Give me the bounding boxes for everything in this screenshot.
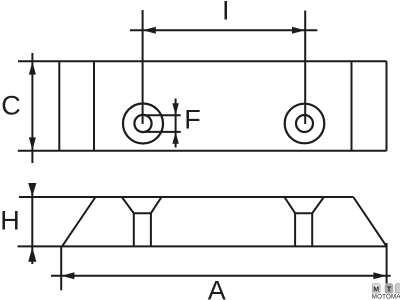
- dimension F lower extension line: [144, 131, 181, 133]
- dimension C line: [31, 53, 33, 163]
- plan view top edge with C extension: [18, 60, 387, 62]
- dimension F top arrowhead: [172, 103, 178, 115]
- countersink 2 bore right wall: [311, 213, 313, 246]
- hole 1 inner circle: [134, 115, 151, 132]
- dimension A left extension line: [60, 247, 62, 291]
- svg-text:H: H: [0, 205, 20, 235]
- svg-text:I: I: [222, 0, 230, 26]
- side view right taper edge: [353, 197, 386, 246]
- svg-text:A: A: [208, 275, 226, 300]
- side view left taper edge: [62, 197, 96, 246]
- svg-text:MOTOMAR: MOTOMAR: [372, 293, 400, 300]
- hole 2 outer circle: [285, 104, 325, 144]
- dimension I line: [130, 29, 317, 31]
- plan view left edge: [58, 61, 60, 151]
- dimension H top arrowhead: [28, 183, 36, 196]
- hole 1 outer circle: [123, 104, 163, 144]
- countersink 2 bore left wall: [294, 213, 296, 246]
- plan view bottom edge with C extension: [18, 150, 387, 152]
- dimension A right arrowhead: [373, 272, 386, 279]
- hole 1 center extension line: [142, 10, 144, 124]
- dimension I left arrowhead: [143, 27, 156, 34]
- svg-text:C: C: [1, 90, 21, 120]
- hole 2 center extension line: [304, 11, 306, 125]
- dimension A right extension line: [386, 243, 388, 284]
- dimension A left arrowhead: [61, 272, 74, 279]
- side view bottom edge with H extension: [18, 245, 387, 247]
- watermark tile M2: [395, 284, 400, 293]
- watermark tile T: [385, 284, 393, 293]
- plan view right edge: [386, 61, 388, 151]
- dimension I right arrowhead: [292, 27, 305, 34]
- side view top edge with H extension: [19, 196, 353, 198]
- countersink 2 profile: [284, 197, 324, 213]
- countersink 1 bore right wall: [150, 213, 152, 246]
- dimension C top arrowhead: [29, 62, 36, 75]
- svg-text:F: F: [184, 105, 201, 135]
- countersink 1 profile: [122, 197, 162, 213]
- dimension F line: [175, 99, 177, 148]
- dimension A line: [51, 275, 391, 277]
- dimension C bottom arrowhead: [29, 137, 36, 150]
- dimension F upper extension line: [144, 114, 181, 116]
- watermark tile M1: [372, 284, 380, 293]
- plan view left taper line: [93, 61, 95, 151]
- plan view right taper line: [351, 61, 353, 151]
- dimension H bottom arrowhead: [28, 247, 36, 262]
- hole 2 inner circle: [296, 115, 313, 132]
- countersink 1 bore left wall: [133, 213, 135, 246]
- dimension F bottom arrowhead: [172, 132, 178, 144]
- dimension H line: [31, 183, 33, 264]
